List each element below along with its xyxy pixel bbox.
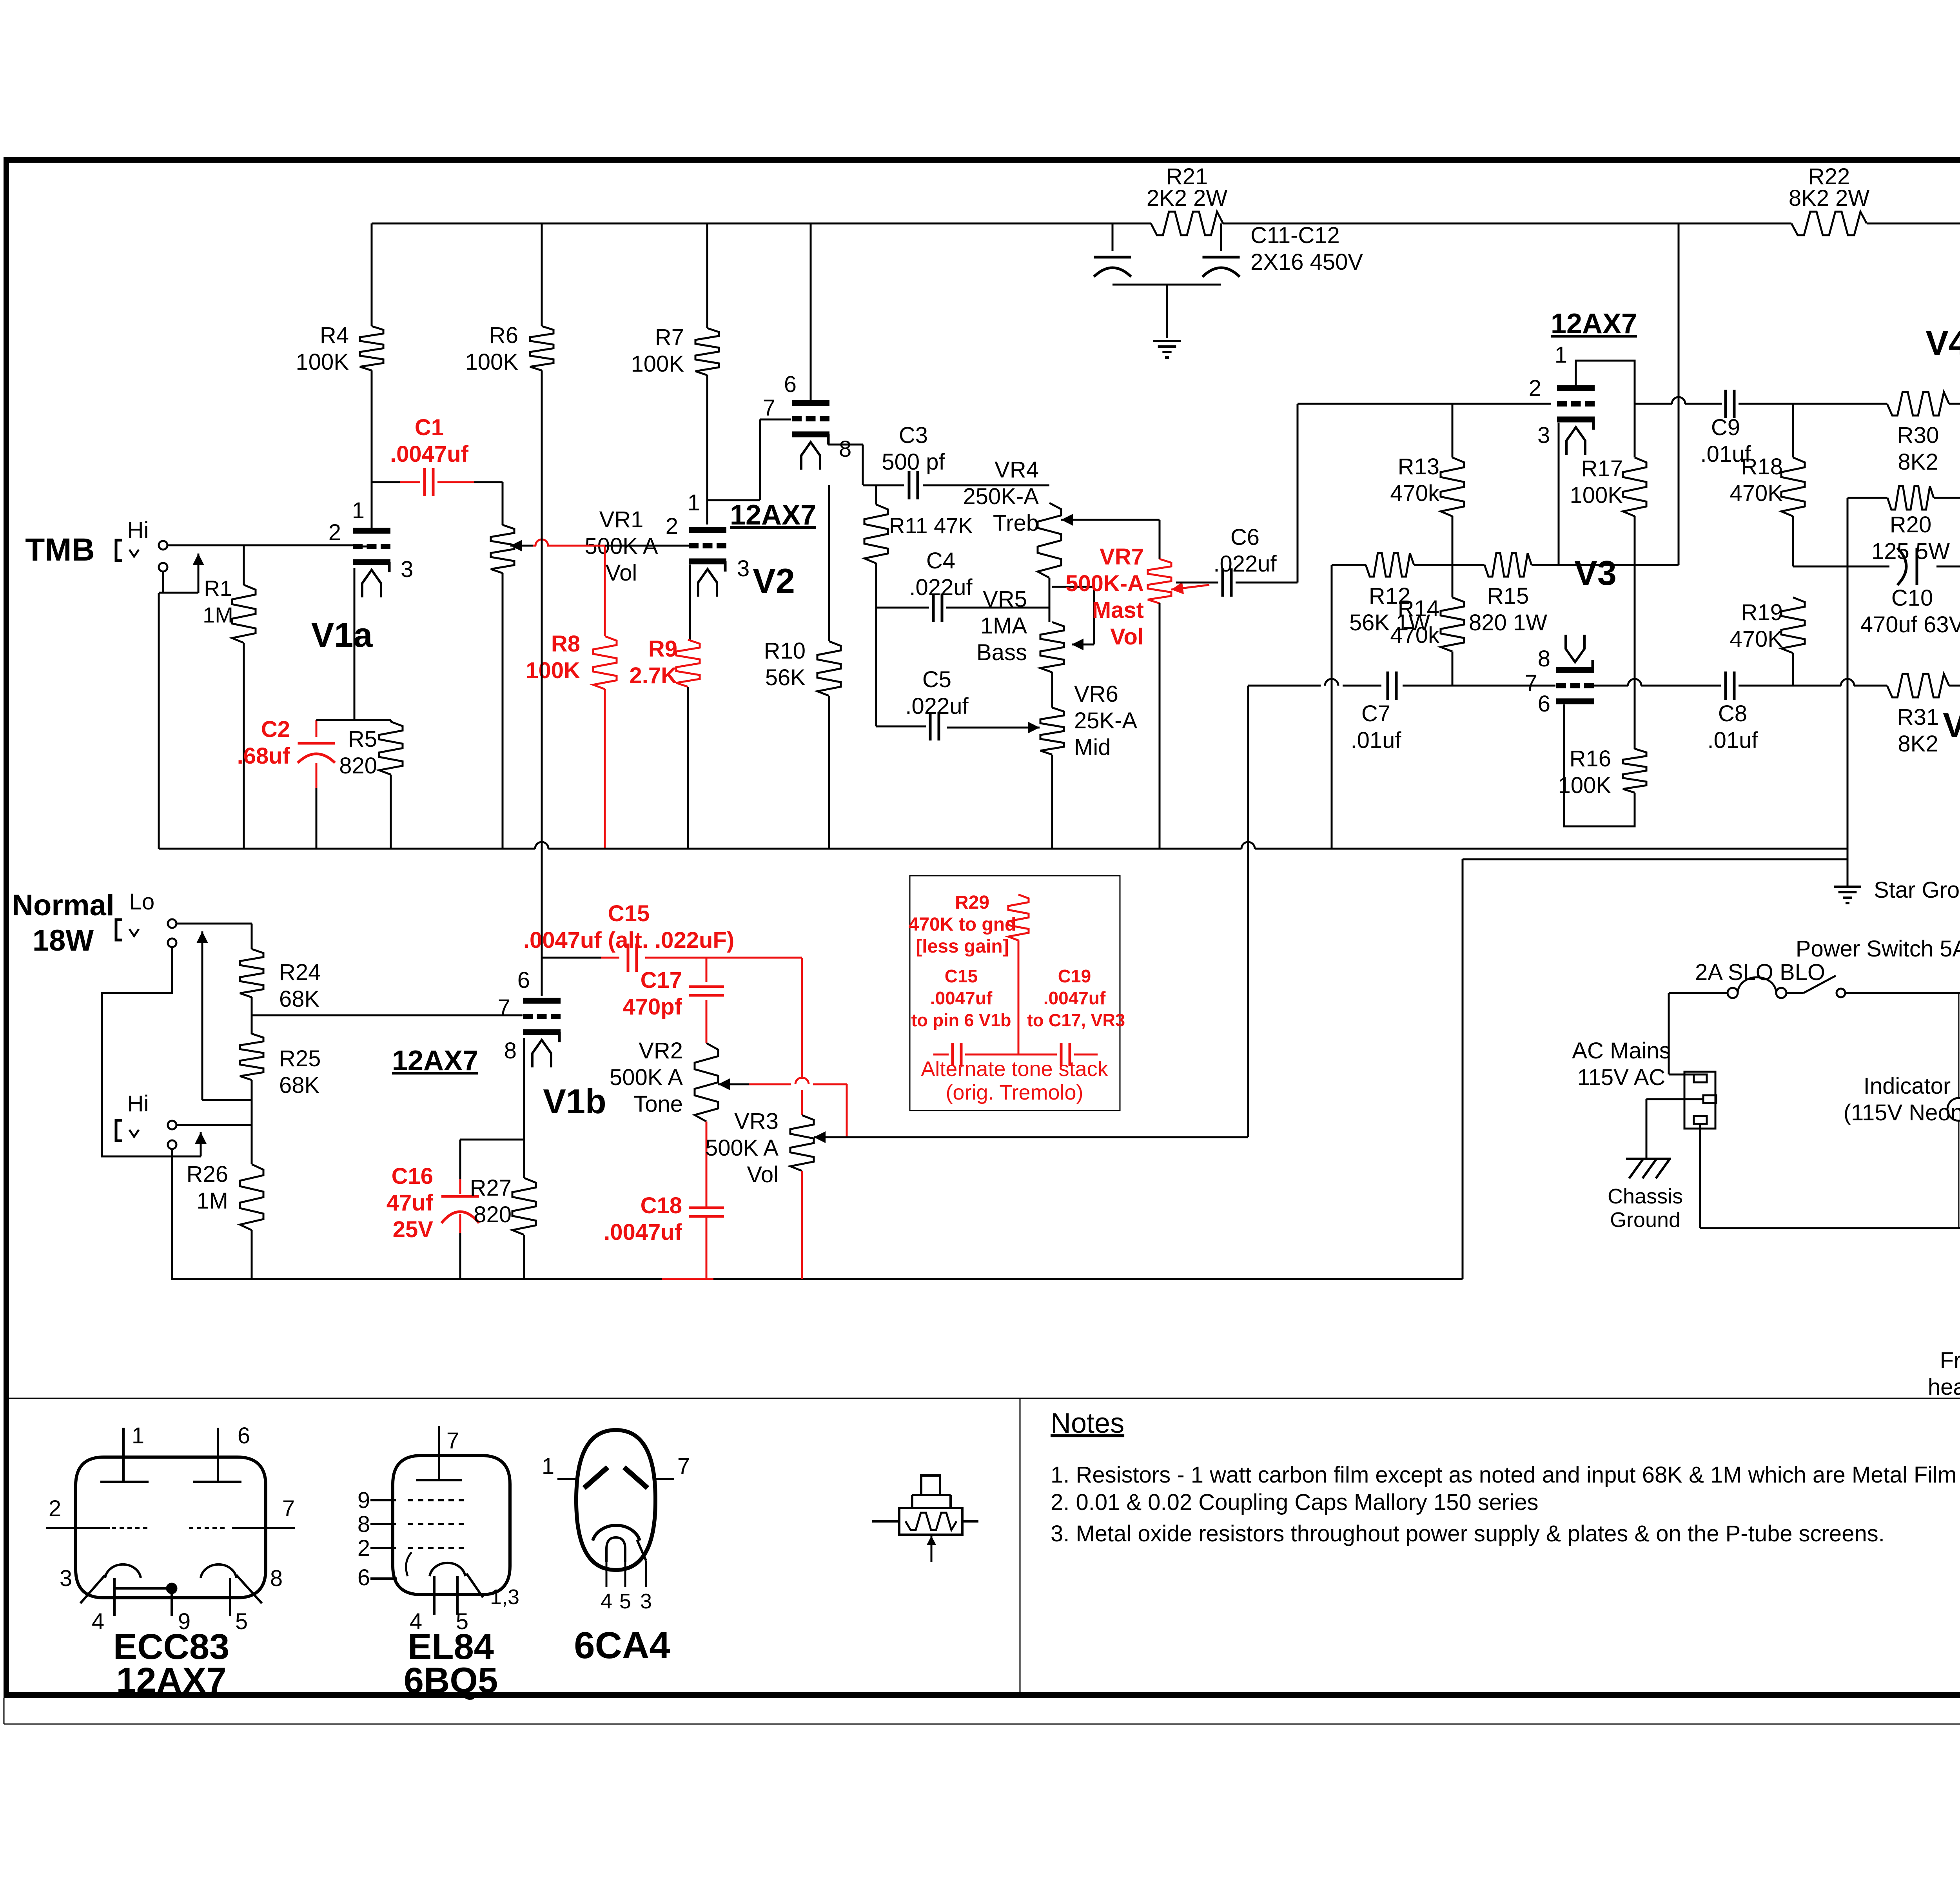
wire R6 to V1b plate <box>541 370 543 996</box>
label AC Mains 115V AC <box>1572 1038 1670 1090</box>
svg-text:18W: 18W <box>33 924 94 957</box>
label Normal 18W <box>12 889 114 957</box>
pinout EL84/6BQ5 <box>358 1426 519 1701</box>
svg-text:Chassis: Chassis <box>1608 1185 1683 1208</box>
svg-text:Bass: Bass <box>976 640 1027 665</box>
svg-text:1MA: 1MA <box>980 613 1027 639</box>
wire C8 node to R31 <box>1793 679 1887 686</box>
resistor R26 <box>187 1125 263 1279</box>
wire VR5-VR6 <box>1051 672 1053 708</box>
capacitor C10 <box>1860 548 1960 638</box>
potentiometer VR7 Mast Vol (red) <box>1065 544 1209 849</box>
wire V3a plate node branch <box>1635 397 1722 404</box>
capacitor C6 <box>1176 524 1298 597</box>
svg-text:2A SLO BLO: 2A SLO BLO <box>1695 960 1825 985</box>
svg-text:100K: 100K <box>296 349 349 375</box>
svg-text:Treb: Treb <box>993 510 1039 536</box>
svg-text:R14: R14 <box>1398 596 1439 621</box>
resistor R16 <box>1558 565 1646 798</box>
svg-text:V1a: V1a <box>311 615 373 654</box>
svg-text:100K: 100K <box>526 658 580 683</box>
svg-text:R10: R10 <box>764 638 806 664</box>
svg-text:500K A: 500K A <box>705 1135 779 1161</box>
svg-text:Vol: Vol <box>1110 624 1144 650</box>
wire cathode bracket <box>460 1140 524 1178</box>
note 3 <box>1051 1521 1885 1546</box>
svg-text:3: 3 <box>737 556 750 581</box>
jack Normal Hi <box>116 1120 176 1149</box>
svg-text:8: 8 <box>1538 646 1550 671</box>
note 1 <box>1051 1462 1956 1488</box>
svg-text:8: 8 <box>504 1038 517 1064</box>
capacitor C17 (red) <box>622 958 724 1043</box>
label Indicator <box>1844 1073 1960 1125</box>
resistor R11 <box>864 485 973 608</box>
svg-text:V3: V3 <box>1574 554 1617 592</box>
label 12AX7 (V3) <box>1551 308 1637 339</box>
svg-text:C7: C7 <box>1361 701 1390 726</box>
jack TMB Hi <box>116 540 167 572</box>
svg-text:C5: C5 <box>922 667 951 692</box>
svg-text:25V: 25V <box>393 1217 434 1242</box>
footer strip <box>4 1698 1960 1724</box>
resistor R31 <box>1887 674 1960 757</box>
capacitor C12 <box>1203 257 1240 277</box>
svg-text:470pf: 470pf <box>622 994 682 1020</box>
resistor R14 <box>1390 565 1464 686</box>
svg-text:2.7K: 2.7K <box>629 663 677 688</box>
svg-text:100K: 100K <box>1570 483 1623 508</box>
svg-text:TMB: TMB <box>25 532 95 568</box>
wire Hi sleeve <box>171 1149 173 1279</box>
svg-text:R6: R6 <box>489 323 518 348</box>
resistor R4 <box>296 223 383 375</box>
svg-text:R13: R13 <box>1398 454 1439 479</box>
wire VR3 wiper line <box>847 1136 1248 1138</box>
ground star <box>1834 859 1861 903</box>
label Notes heading <box>1051 1408 1124 1439</box>
switch power <box>1804 976 1960 997</box>
potentiometer VR2 Tone <box>610 1038 749 1208</box>
svg-text:VR6: VR6 <box>1074 681 1118 707</box>
capacitor C15 alt (red) <box>911 966 1018 1066</box>
svg-text:R19: R19 <box>1741 600 1783 625</box>
plug AC mains <box>1646 993 1716 1228</box>
svg-text:3: 3 <box>1537 423 1550 448</box>
svg-text:820 1W: 820 1W <box>1469 610 1547 635</box>
ground C11-C12 <box>1153 341 1181 358</box>
label Lo <box>129 889 155 915</box>
svg-text:5: 5 <box>619 1590 631 1613</box>
wire V3b grid line <box>1248 679 1381 686</box>
jack Normal Lo <box>116 919 176 947</box>
trimmer symbol <box>872 1475 978 1562</box>
resistor R22 <box>1789 164 1870 235</box>
svg-text:820: 820 <box>339 753 377 779</box>
svg-text:1M: 1M <box>196 1188 228 1214</box>
svg-text:4: 4 <box>92 1609 104 1634</box>
label V5 <box>1943 706 1960 744</box>
bottom panel separator <box>6 1398 1960 1399</box>
svg-text:to pin 6 V1b: to pin 6 V1b <box>911 1010 1011 1030</box>
svg-text:8: 8 <box>839 436 851 462</box>
svg-text:8: 8 <box>358 1512 370 1537</box>
svg-text:C18: C18 <box>641 1193 682 1218</box>
svg-text:6: 6 <box>1538 691 1550 717</box>
pinout 6CA4 <box>542 1430 690 1666</box>
potentiometer VR6 Mid <box>947 681 1138 849</box>
arrow Lo jack contact <box>196 931 208 1100</box>
note 2 <box>1051 1490 1538 1515</box>
svg-text:6: 6 <box>358 1565 370 1590</box>
svg-text:7: 7 <box>763 395 775 421</box>
svg-text:25K-A: 25K-A <box>1074 708 1138 733</box>
svg-text:V4: V4 <box>1926 323 1960 362</box>
svg-text:8K2 2W: 8K2 2W <box>1789 185 1870 211</box>
svg-text:.01uf: .01uf <box>1708 728 1759 753</box>
label 12AX7 (V2) <box>730 499 816 531</box>
svg-text:2: 2 <box>1529 376 1541 401</box>
svg-text:6: 6 <box>238 1423 250 1448</box>
tube V1a <box>311 498 414 654</box>
wire lower bus link <box>1463 859 1847 1279</box>
resistor R5 <box>339 720 403 849</box>
panel divider left <box>1020 1398 1021 1695</box>
svg-text:12AX7: 12AX7 <box>730 499 816 531</box>
svg-text:1M: 1M <box>203 603 233 627</box>
label V3 <box>1574 554 1617 592</box>
wire V2b plate lead <box>810 223 812 401</box>
capacitor C5 <box>876 667 969 740</box>
label 2A SLO BLO <box>1695 960 1825 985</box>
svg-text:.68uf: .68uf <box>237 743 290 769</box>
svg-text:100K: 100K <box>465 349 519 375</box>
label Power Switch 5A <box>1796 936 1960 962</box>
wire Lo sleeve bracket <box>102 947 201 1156</box>
svg-text:.0047uf: .0047uf <box>604 1220 682 1245</box>
svg-text:C15: C15 <box>945 966 978 986</box>
svg-text:Vol: Vol <box>606 560 637 586</box>
svg-text:2: 2 <box>49 1496 61 1521</box>
resistor R12 <box>1349 553 1430 635</box>
svg-text:8K2: 8K2 <box>1898 449 1938 475</box>
svg-text:(115V Neon): (115V Neon) <box>1844 1100 1960 1125</box>
arrow TMB jack contact <box>192 554 204 593</box>
svg-text:470k: 470k <box>1390 622 1440 648</box>
wire VR2 wiper (red) <box>749 1078 847 1137</box>
wire R7 to V2a plate <box>706 375 708 524</box>
capacitor C11 <box>1094 257 1131 277</box>
svg-text:470k: 470k <box>1390 481 1440 506</box>
svg-text:7: 7 <box>677 1454 690 1479</box>
label C11-C12 <box>1250 223 1363 275</box>
wire lower ground bus <box>171 1278 1463 1280</box>
wire R25 bottom tie <box>202 1099 252 1101</box>
capacitor C3 <box>882 423 1049 499</box>
resistor R19 <box>1730 597 1805 686</box>
svg-text:2: 2 <box>358 1535 370 1561</box>
svg-text:[less gain]: [less gain] <box>916 936 1009 957</box>
svg-text:1: 1 <box>688 490 700 515</box>
svg-text:Star Ground: Star Ground <box>1874 877 1960 903</box>
tube V2a (lower) <box>666 490 795 600</box>
svg-text:100K: 100K <box>631 351 684 377</box>
wire V2b cathode to tone stack <box>828 445 904 485</box>
potentiometer VR5 Bass <box>976 586 1094 672</box>
wire V2a plate to V2b grid <box>708 419 791 500</box>
svg-text:R4: R4 <box>320 323 349 348</box>
resistor R20 <box>1847 486 1960 566</box>
wire TMB tip <box>167 544 354 546</box>
resistor R18 <box>1730 404 1805 566</box>
svg-text:R20: R20 <box>1890 512 1931 537</box>
label alternate tone stack <box>921 1057 1108 1104</box>
svg-text:Ground: Ground <box>1610 1208 1681 1232</box>
svg-text:C10: C10 <box>1891 585 1933 611</box>
wire C15 to VR3 (red) <box>801 958 803 1115</box>
wire B+ rail <box>372 223 1960 225</box>
svg-text:1. Resistors - 1 watt carbon f: 1. Resistors - 1 watt carbon film except… <box>1051 1462 1956 1488</box>
svg-text:7: 7 <box>1525 670 1537 696</box>
wire V1b cathode <box>523 1038 525 1140</box>
wire VR1 wiper (red) <box>533 539 605 636</box>
wire V1a plate lead <box>371 370 373 528</box>
svg-text:6BQ5: 6BQ5 <box>404 1661 498 1701</box>
capacitor C8 <box>1594 671 1793 753</box>
svg-text:C11-C12: C11-C12 <box>1250 223 1340 248</box>
label Star Ground <box>1874 877 1960 903</box>
svg-text:VR1: VR1 <box>599 507 644 532</box>
svg-text:C1: C1 <box>415 415 444 440</box>
wire VR4 wiper to VR7 <box>1159 520 1161 559</box>
tube V3a (upper) <box>1529 342 1595 455</box>
capacitor C18 (red) <box>604 1193 724 1279</box>
potentiometer VR4 Treb <box>963 457 1160 622</box>
label From 6.3V heater supply <box>1928 1348 1960 1400</box>
svg-text:Indicator: Indicator <box>1864 1073 1951 1099</box>
wire mains bottom <box>1700 1227 1960 1229</box>
resistor R21 <box>1147 164 1228 235</box>
label 12AX7 (V1b) <box>392 1045 478 1076</box>
resistor R24 <box>240 924 321 1034</box>
svg-text:820: 820 <box>474 1202 512 1227</box>
svg-text:3. Metal oxide resistors throu: 3. Metal oxide resistors throughout powe… <box>1051 1521 1885 1546</box>
label TMB <box>25 532 95 568</box>
svg-text:(orig. Tremolo): (orig. Tremolo) <box>946 1081 1083 1104</box>
svg-text:C3: C3 <box>899 423 928 448</box>
tube V3b (lower) <box>1525 635 1594 717</box>
svg-text:125 5W: 125 5W <box>1871 539 1950 564</box>
wire C10 line <box>1793 566 1960 568</box>
wire V3a cathode lead <box>1558 423 1560 565</box>
label Chassis Ground <box>1608 1185 1683 1232</box>
capacitor C2 (red) <box>237 717 335 849</box>
svg-text:R26: R26 <box>187 1162 228 1187</box>
svg-text:100K: 100K <box>1558 773 1612 798</box>
svg-text:C15: C15 <box>608 901 650 926</box>
resistor R6 <box>465 223 554 375</box>
svg-text:R24: R24 <box>279 960 321 985</box>
svg-text:.0047uf (alt. .022uF): .0047uf (alt. .022uF) <box>523 927 734 953</box>
svg-text:R18: R18 <box>1741 454 1783 479</box>
svg-text:12AX7: 12AX7 <box>116 1661 226 1701</box>
potentiometer VR3 Vol <box>705 1109 847 1279</box>
resistor R13 <box>1390 404 1464 565</box>
svg-text:Normal: Normal <box>12 889 114 922</box>
wire B+ drop to V3 <box>1678 223 1680 565</box>
resistor R30 <box>1887 392 1960 475</box>
wire C6 riser <box>1298 404 1551 583</box>
svg-text:3: 3 <box>401 557 413 582</box>
chassis ground <box>1626 1159 1671 1178</box>
svg-text:C9: C9 <box>1711 415 1740 440</box>
svg-text:Tone: Tone <box>633 1091 683 1117</box>
svg-text:56K: 56K <box>765 665 806 690</box>
svg-text:Hi: Hi <box>127 517 149 543</box>
svg-text:500K-A: 500K-A <box>1065 571 1144 596</box>
svg-text:VR7: VR7 <box>1100 544 1144 570</box>
svg-text:V1b: V1b <box>543 1082 606 1121</box>
svg-text:1: 1 <box>132 1423 144 1448</box>
svg-text:Vol: Vol <box>747 1162 779 1187</box>
svg-text:.022uf: .022uf <box>1213 551 1277 577</box>
svg-text:C4: C4 <box>926 548 955 573</box>
svg-text:7: 7 <box>282 1496 295 1521</box>
resistor R9 (red) <box>629 564 700 849</box>
wire V1b grid line <box>252 1015 523 1016</box>
svg-text:VR4: VR4 <box>995 457 1039 483</box>
svg-text:3: 3 <box>60 1566 72 1591</box>
wire V1a grid stub <box>354 546 372 548</box>
wire R12 left drop <box>1331 565 1333 849</box>
svg-text:C16: C16 <box>392 1163 433 1189</box>
svg-text:470K to gnd: 470K to gnd <box>909 914 1016 935</box>
resistor R17 <box>1570 456 1646 565</box>
svg-text:AC Mains: AC Mains <box>1572 1038 1670 1064</box>
svg-text:VR2: VR2 <box>639 1038 683 1064</box>
capacitor C7 <box>1351 671 1556 753</box>
svg-text:8K2: 8K2 <box>1898 731 1938 757</box>
svg-text:12AX7: 12AX7 <box>1551 308 1637 339</box>
svg-text:470uf 63V: 470uf 63V <box>1860 612 1960 637</box>
capacitor C19 alt (red) <box>1018 966 1125 1066</box>
resistor R27 <box>470 1175 536 1279</box>
tube V1b <box>498 967 606 1121</box>
wire V2a grid feed <box>605 545 689 547</box>
svg-text:C2: C2 <box>261 717 290 742</box>
label Hi (TMB jack) <box>127 517 149 543</box>
svg-text:9: 9 <box>358 1488 370 1513</box>
svg-text:C6: C6 <box>1230 524 1259 550</box>
svg-text:47uf: 47uf <box>387 1190 434 1216</box>
svg-text:1,3: 1,3 <box>490 1585 519 1609</box>
capacitor C4 <box>876 548 1049 622</box>
resistor R1 <box>203 545 256 849</box>
svg-text:6CA4: 6CA4 <box>574 1624 670 1666</box>
fuse F1 <box>1669 977 1804 998</box>
svg-text:Hi: Hi <box>127 1091 149 1116</box>
svg-text:Mid: Mid <box>1074 735 1111 760</box>
svg-text:500 pf: 500 pf <box>882 449 945 475</box>
svg-text:7: 7 <box>446 1428 459 1454</box>
wire V3b plate loop <box>1564 704 1635 826</box>
resistor R8 (red) <box>526 631 617 849</box>
svg-text:From 6.3 V: From 6.3 V <box>1940 1348 1960 1373</box>
tube V2b (upper) <box>763 372 852 470</box>
svg-text:R30: R30 <box>1897 423 1939 448</box>
svg-text:6: 6 <box>517 967 530 993</box>
svg-text:R5: R5 <box>348 726 377 752</box>
capacitor C16 (red) <box>387 1140 479 1279</box>
wire upper ground bus <box>159 593 1847 849</box>
svg-text:R31: R31 <box>1897 704 1939 730</box>
svg-text:Alternate tone stack: Alternate tone stack <box>921 1057 1108 1081</box>
svg-text:.022uf: .022uf <box>905 693 969 719</box>
resistor R15 <box>1469 553 1547 635</box>
svg-text:Notes: Notes <box>1051 1408 1124 1439</box>
svg-text:250K-A: 250K-A <box>963 484 1039 509</box>
arrow Hi jack contact <box>195 1132 207 1156</box>
svg-text:C19: C19 <box>1058 966 1091 986</box>
svg-text:R11 47K: R11 47K <box>889 513 973 538</box>
svg-text:R27: R27 <box>470 1175 512 1201</box>
svg-text:R7: R7 <box>655 325 684 350</box>
capacitor C9 <box>1700 390 1887 467</box>
svg-text:.0047uf: .0047uf <box>1044 988 1106 1008</box>
svg-text:1: 1 <box>1555 342 1567 368</box>
potentiometer VR1 <box>491 482 658 849</box>
svg-text:to C17, VR3: to C17, VR3 <box>1027 1010 1125 1030</box>
svg-text:470K: 470K <box>1730 626 1783 652</box>
resistor R29 (red) <box>909 892 1029 1054</box>
svg-text:68K: 68K <box>279 1073 320 1098</box>
svg-text:1: 1 <box>352 498 365 523</box>
svg-text:R15: R15 <box>1487 583 1529 609</box>
svg-text:R25: R25 <box>279 1046 321 1071</box>
svg-text:R1: R1 <box>204 576 232 601</box>
svg-text:C17: C17 <box>641 967 682 993</box>
svg-text:8: 8 <box>270 1566 283 1591</box>
svg-text:2K2 2W: 2K2 2W <box>1147 185 1228 211</box>
svg-text:6: 6 <box>784 372 797 397</box>
resistor R25 <box>240 1034 321 1125</box>
svg-text:V5: V5 <box>1943 706 1960 744</box>
resistor R10 <box>764 485 841 849</box>
wire tone trunk <box>875 608 877 726</box>
wire C7 feed riser <box>1247 686 1249 1137</box>
svg-text:4: 4 <box>601 1590 612 1613</box>
wire V3a plate loop <box>1576 361 1635 457</box>
wire mid line <box>1332 564 1679 566</box>
svg-text:.0047uf: .0047uf <box>930 988 993 1008</box>
svg-text:2X16 450V: 2X16 450V <box>1250 249 1363 275</box>
svg-text:470K: 470K <box>1730 481 1783 506</box>
svg-text:1: 1 <box>542 1454 554 1479</box>
svg-text:500K A: 500K A <box>610 1065 683 1090</box>
svg-text:115V AC: 115V AC <box>1577 1065 1666 1090</box>
svg-text:12AX7: 12AX7 <box>392 1045 478 1076</box>
svg-text:R8: R8 <box>551 631 580 657</box>
svg-text:.01uf: .01uf <box>1351 728 1402 753</box>
svg-text:2: 2 <box>666 514 678 539</box>
svg-text:R17: R17 <box>1581 456 1623 481</box>
capacitor C15 (red) <box>523 901 802 972</box>
svg-text:C8: C8 <box>1718 701 1747 726</box>
wire Lo tip <box>176 923 252 925</box>
svg-text:VR5: VR5 <box>983 586 1027 612</box>
svg-text:2. 0.01 & 0.02 Coupling Caps M: 2. 0.01 & 0.02 Coupling Caps Mallory 150… <box>1051 1490 1538 1515</box>
svg-text:.022uf: .022uf <box>909 575 973 600</box>
